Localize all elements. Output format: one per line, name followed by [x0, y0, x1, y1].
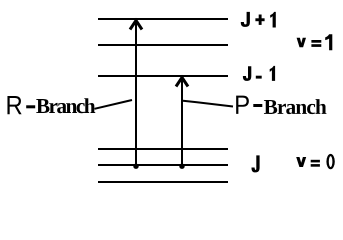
label P	[236, 96, 249, 114]
label Branch (R side)	[36, 98, 95, 113]
P-branch arrowhead	[176, 78, 188, 87]
R-branch transition arrow shaft	[135, 20, 137, 165]
level line J-1 (v=1 lower)	[98, 75, 228, 77]
label R	[7, 96, 21, 114]
dash of R-Branch	[26, 105, 35, 108]
P-branch transition arrow shaft	[181, 77, 183, 165]
level line v=0 bottom	[98, 181, 228, 183]
P-branch pointer line	[183, 101, 233, 107]
R-branch arrowhead	[130, 21, 142, 30]
label Branch (P side)	[264, 99, 327, 114]
level line J (v=0 middle)	[98, 164, 228, 166]
label v = 0	[296, 154, 335, 169]
label J + 1	[241, 12, 276, 28]
level line middle (v=1)	[98, 44, 228, 46]
R-branch junction dot	[133, 164, 138, 169]
level line J+1 (v=1 upper)	[98, 18, 228, 20]
level line v=0 upper	[98, 148, 228, 150]
label v = 1	[297, 34, 333, 50]
P-branch junction dot	[179, 164, 184, 169]
label J - 1	[243, 66, 275, 81]
label J (v=0)	[252, 155, 260, 172]
dash of P-Branch	[253, 104, 262, 107]
R-branch pointer line	[95, 100, 133, 109]
